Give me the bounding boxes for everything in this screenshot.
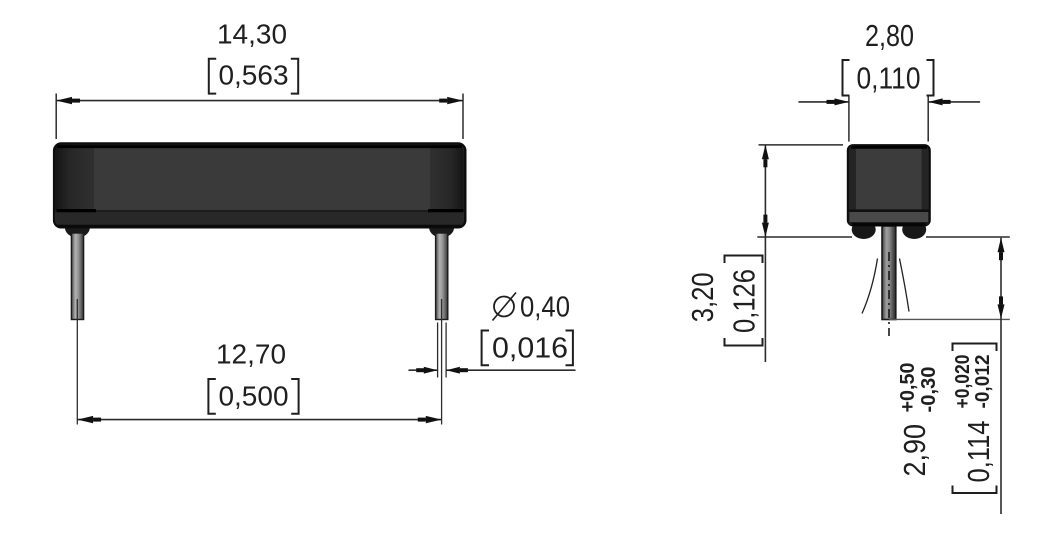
dimension 12,70: dimension line with arrows bbox=[77, 419, 441, 421]
dimension 12,70: left bracket bbox=[208, 379, 215, 414]
svg-text:-0,012: -0,012 bbox=[972, 355, 994, 409]
front view: seam line full bbox=[55, 210, 464, 212]
dimension dia 0,40: right bracket bbox=[566, 331, 573, 366]
dimension 14,30: right bracket bbox=[291, 59, 298, 94]
side view: body bottom dark strip bbox=[850, 222, 929, 225]
svg-text:0,563: 0,563 bbox=[218, 60, 288, 91]
front view: right pin ball bbox=[429, 218, 454, 238]
front view: left end cap shading bbox=[55, 145, 94, 211]
dimension 2,80: right arrow line bbox=[928, 101, 980, 103]
front view: left pin ball bbox=[65, 218, 90, 238]
side view: body light band bbox=[850, 212, 929, 222]
svg-text:2,90: 2,90 bbox=[897, 424, 932, 477]
dimension dia 0,40: left bracket bbox=[482, 331, 489, 366]
side view: body left edge shading bbox=[849, 146, 856, 224]
front view: body top edge line bbox=[57, 145, 462, 148]
side view: body top edge line bbox=[851, 146, 927, 149]
dimension dia 0,40: left arrow line bbox=[409, 369, 438, 371]
svg-text:0,016: 0,016 bbox=[492, 333, 568, 365]
dimension 3,20: top extension line bbox=[759, 144, 844, 146]
dimension 2,80: right extension line bbox=[927, 96, 929, 142]
front view: seam line right bbox=[428, 209, 464, 212]
dimension 14,30: left extension line bbox=[55, 94, 57, 140]
dimension 2,90: rotated value text with tolerances bbox=[897, 363, 940, 477]
dimension 2,80: left arrow line bbox=[798, 101, 849, 103]
dimension 2,90: rotated inch text with tolerances [0,114 +0,020 -0,012] bbox=[952, 344, 997, 494]
front view: right pin shaft bbox=[436, 233, 448, 320]
front view: right end cap shading bbox=[430, 145, 464, 211]
svg-text:0,126: 0,126 bbox=[727, 269, 762, 333]
front view: package body bbox=[54, 144, 465, 228]
svg-text:+0,50: +0,50 bbox=[897, 363, 919, 413]
front view: seam line left bbox=[57, 209, 97, 212]
dimension 2,90: pin bottom extension line bbox=[889, 318, 1010, 320]
front view: left pin shaft bbox=[71, 233, 83, 320]
dimension dia 0,40: right leader line with arrow bbox=[446, 369, 575, 371]
dimension 14,30: dimension line with arrows bbox=[56, 100, 463, 102]
dimension 2,80: left bracket bbox=[843, 60, 850, 96]
dimension 3,20: dimension line bbox=[764, 145, 766, 362]
dimension 2,80: right bracket bbox=[927, 60, 934, 96]
svg-text:12,70: 12,70 bbox=[216, 339, 286, 370]
svg-text:3,20: 3,20 bbox=[685, 272, 720, 322]
side view: pin center dash line bbox=[888, 252, 890, 336]
dimension 3,20: bottom extension line left part bbox=[757, 236, 852, 238]
side view: pin shaft bbox=[882, 226, 896, 320]
dimension 12,70: left pin center line bbox=[76, 299, 78, 425]
side view: left pin ball bbox=[852, 220, 876, 239]
side view: body right edge shading bbox=[922, 146, 929, 224]
svg-text:0,114: 0,114 bbox=[961, 421, 996, 483]
front view: bottom edge line bbox=[58, 225, 461, 227]
svg-text:+0,020: +0,020 bbox=[952, 355, 974, 409]
svg-text:0,500: 0,500 bbox=[218, 381, 288, 412]
side view: right bend whisker bbox=[900, 259, 910, 312]
dimension 2,80: left extension line bbox=[848, 96, 850, 142]
front view: bottom band bbox=[55, 212, 464, 226]
side view: body bottom edge line bbox=[852, 223, 926, 226]
dimension 3,20: rotated value text bbox=[685, 272, 720, 322]
dimension 12,70: right bracket bbox=[291, 379, 298, 414]
side view: package body bbox=[848, 145, 930, 225]
dimension 2,90: dimension line bbox=[1000, 238, 1002, 514]
side view: right pin ball bbox=[902, 220, 926, 239]
svg-text:-0,30: -0,30 bbox=[918, 367, 940, 413]
svg-text:14,30: 14,30 bbox=[217, 19, 287, 50]
svg-text:2,80: 2,80 bbox=[865, 18, 914, 53]
dimension 14,30: left bracket bbox=[209, 59, 216, 94]
dimension dia 0,40: right extension line bbox=[445, 323, 447, 378]
dimension 14,30: right extension line bbox=[462, 94, 464, 140]
dimension dia 0,40: left extension line bbox=[437, 323, 439, 378]
dimension dia 0,40: diameter symbol bbox=[493, 293, 517, 321]
side view: left bend whisker bbox=[862, 259, 878, 314]
svg-text:0,110: 0,110 bbox=[857, 61, 921, 96]
dimension 3,20: bottom extension line right part bbox=[926, 236, 1010, 238]
dimension 12,70: right pin center line bbox=[441, 299, 443, 425]
side view: body seam line bbox=[849, 209, 929, 212]
svg-text:0,40: 0,40 bbox=[520, 292, 570, 324]
dimension 3,20: rotated inch text [0,126] bbox=[725, 256, 763, 346]
